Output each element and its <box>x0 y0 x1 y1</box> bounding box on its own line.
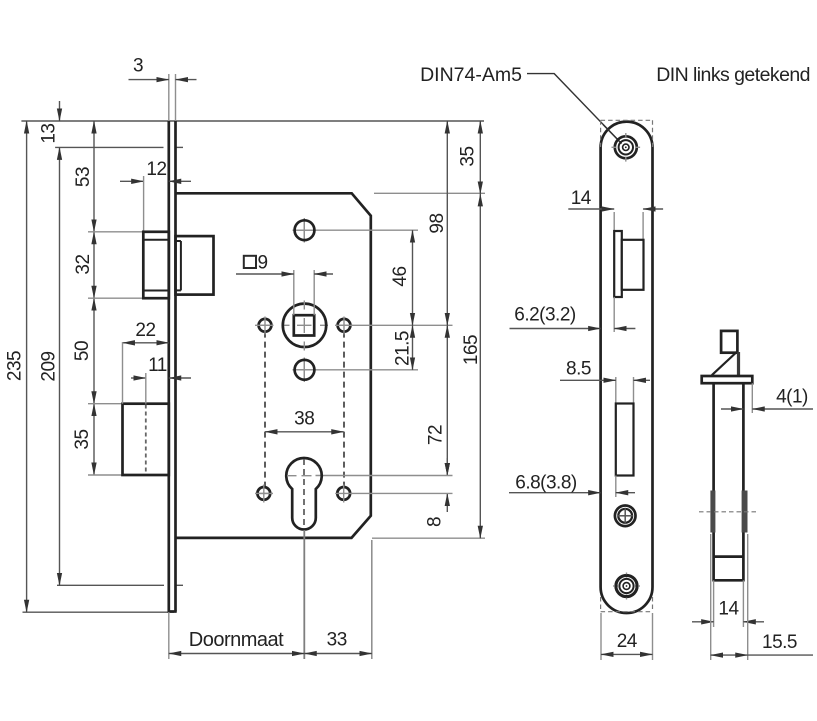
svg-text:Doornmaat: Doornmaat <box>189 629 284 651</box>
svg-text:14: 14 <box>718 599 739 620</box>
svg-text:98: 98 <box>427 213 448 233</box>
svg-text:50: 50 <box>72 341 93 361</box>
svg-text:72: 72 <box>426 425 447 445</box>
svg-text:DIN links getekend: DIN links getekend <box>656 64 810 86</box>
svg-text:3: 3 <box>133 56 143 77</box>
svg-text:8.5: 8.5 <box>566 359 591 380</box>
svg-text:22: 22 <box>135 320 155 341</box>
svg-text:35: 35 <box>72 429 93 449</box>
svg-text:46: 46 <box>390 266 411 286</box>
svg-text:8: 8 <box>425 517 446 527</box>
svg-text:33: 33 <box>327 630 347 651</box>
svg-text:53: 53 <box>73 167 94 187</box>
svg-text:14: 14 <box>571 188 592 209</box>
svg-text:13: 13 <box>39 124 60 144</box>
svg-text:4(1): 4(1) <box>776 387 808 408</box>
svg-text:32: 32 <box>73 254 94 274</box>
svg-text:235: 235 <box>5 351 26 381</box>
svg-text:209: 209 <box>39 351 60 381</box>
svg-text:6.8(3.8): 6.8(3.8) <box>515 473 577 494</box>
svg-text:15.5: 15.5 <box>762 632 797 653</box>
svg-text:DIN74-Am5: DIN74-Am5 <box>420 64 522 86</box>
svg-text:9: 9 <box>258 253 268 274</box>
svg-text:24: 24 <box>617 631 638 652</box>
svg-text:6.2(3.2): 6.2(3.2) <box>514 305 576 326</box>
svg-text:21.5: 21.5 <box>393 331 414 366</box>
svg-text:12: 12 <box>146 159 166 180</box>
svg-text:38: 38 <box>294 409 314 430</box>
svg-text:11: 11 <box>148 355 167 376</box>
svg-text:35: 35 <box>458 146 479 166</box>
svg-text:165: 165 <box>461 335 482 365</box>
